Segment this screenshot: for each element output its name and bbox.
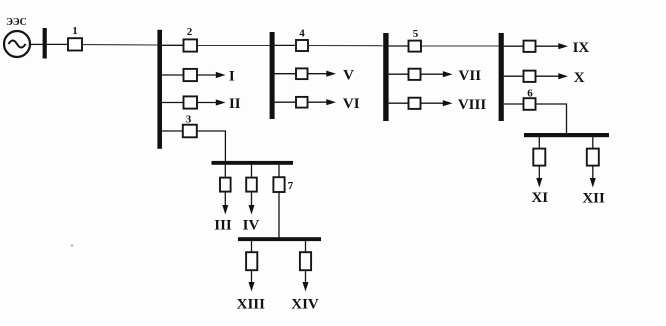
middle bus (bus 6) bbox=[212, 161, 294, 165]
wire bus5 to breaker X bbox=[504, 75, 524, 77]
wire right bus to breaker XI bbox=[538, 137, 540, 148]
wire bus4 to breaker VII bbox=[389, 73, 409, 75]
arrow feeder XIV bbox=[305, 270, 307, 283]
bus 1 (source bus) bbox=[43, 28, 47, 59]
breaker 2 bbox=[184, 39, 198, 51]
svg-text:2: 2 bbox=[187, 26, 193, 38]
wire bottom bus to breaker XIV bbox=[305, 241, 307, 252]
breaker feeder VI bbox=[296, 97, 308, 108]
breaker 7 bbox=[273, 177, 284, 192]
wire bus2 to breaker I bbox=[162, 74, 184, 76]
arrow feeder I bbox=[197, 74, 218, 76]
svg-text:5: 5 bbox=[413, 28, 419, 40]
bottom bus (bus 7) bbox=[238, 237, 321, 241]
arrow feeder II bbox=[197, 102, 218, 104]
breaker feeder VII bbox=[409, 69, 421, 80]
arrow feeder VII bbox=[421, 73, 445, 75]
wire bus2 to breaker II bbox=[162, 102, 184, 104]
breaker feeder XIII bbox=[246, 252, 257, 270]
breaker feeder VIII bbox=[409, 98, 421, 109]
breaker 5 bbox=[409, 41, 422, 52]
source G (system equivalent) bbox=[4, 31, 30, 57]
wire middle bus to breaker III bbox=[224, 165, 226, 178]
breaker feeder III bbox=[220, 178, 231, 192]
breaker 4 bbox=[296, 40, 308, 51]
arrow feeder XI bbox=[538, 166, 540, 180]
breaker feeder X bbox=[524, 71, 536, 82]
arrow feeder XIII bbox=[251, 270, 253, 283]
arrow feeder IX bbox=[536, 45, 560, 47]
breaker feeder V bbox=[296, 68, 308, 79]
wire breaker 7 to bottom bus bbox=[278, 192, 280, 238]
speck artifact bbox=[71, 245, 73, 247]
breaker feeder IV bbox=[246, 178, 257, 192]
svg-text:XIII: XIII bbox=[237, 297, 266, 313]
arrow feeder X bbox=[536, 75, 560, 77]
svg-text:II: II bbox=[229, 96, 241, 112]
bus 4 bbox=[383, 33, 388, 121]
wire bus4 to breaker VIII bbox=[389, 102, 409, 104]
breaker feeder I bbox=[184, 69, 198, 81]
bus 3 bbox=[270, 32, 275, 119]
wire bus3 to breaker VI bbox=[275, 101, 296, 103]
breaker feeder XIV bbox=[300, 252, 311, 270]
wire breaker 4 to bus 4 bbox=[308, 45, 383, 47]
bus 2 bbox=[157, 30, 162, 149]
wire bus5 to breaker 6 bbox=[504, 103, 524, 105]
wire breaker 5 to bus 5 bbox=[421, 45, 499, 47]
wire breaker 2 to bus 3 bbox=[197, 45, 270, 47]
svg-text:3: 3 bbox=[186, 114, 192, 126]
svg-text:VIII: VIII bbox=[458, 97, 487, 113]
wire middle bus to breaker 7 bbox=[278, 165, 280, 177]
right bus (bus 8) bbox=[524, 133, 609, 137]
wire breaker 1 to bus 2 bbox=[82, 44, 158, 46]
breaker 1 bbox=[68, 38, 82, 50]
svg-text:VII: VII bbox=[459, 68, 482, 84]
arrow feeder XII bbox=[592, 166, 594, 180]
arrow feeder III bbox=[224, 192, 226, 207]
arrow feeder VI bbox=[308, 101, 329, 103]
wire breaker 6 to right bus (right then down) bbox=[536, 104, 567, 134]
bus 5 bbox=[499, 33, 504, 121]
wire breaker 3 to middle bus (right then down) bbox=[197, 131, 226, 162]
wire bus3 to breaker 4 bbox=[275, 44, 296, 46]
svg-text:III: III bbox=[214, 218, 232, 234]
wire bus5 to breaker IX bbox=[504, 45, 524, 47]
breaker feeder II bbox=[184, 96, 198, 108]
wire bus2 to breaker 3 bbox=[162, 130, 183, 132]
wire bus3 to breaker V bbox=[275, 73, 296, 75]
svg-text:VI: VI bbox=[343, 96, 360, 112]
arrow feeder V bbox=[308, 73, 329, 75]
svg-text:XI: XI bbox=[531, 190, 548, 206]
wire bottom bus to breaker XIII bbox=[251, 241, 253, 252]
svg-text:V: V bbox=[343, 67, 354, 83]
breaker 3 bbox=[183, 125, 197, 138]
svg-text:IX: IX bbox=[573, 40, 590, 56]
svg-text:7: 7 bbox=[288, 180, 294, 192]
svg-text:I: I bbox=[229, 69, 235, 85]
svg-text:1: 1 bbox=[72, 25, 78, 37]
breaker 6 bbox=[524, 98, 536, 110]
wire bus2 to breaker 2 bbox=[162, 44, 184, 46]
svg-text:XII: XII bbox=[582, 191, 605, 207]
wire bus4 to breaker 5 bbox=[389, 45, 409, 47]
arrow feeder IV bbox=[251, 192, 253, 207]
wire right bus to breaker XII bbox=[592, 137, 594, 148]
svg-text:IV: IV bbox=[243, 218, 260, 234]
svg-text:X: X bbox=[574, 70, 585, 86]
wire middle bus to breaker IV bbox=[251, 165, 253, 178]
wire bus1 to breaker 1 bbox=[47, 43, 68, 45]
breaker feeder IX bbox=[524, 41, 536, 52]
arrow feeder VIII bbox=[421, 102, 445, 104]
svg-text:4: 4 bbox=[299, 28, 305, 40]
breaker feeder XII bbox=[587, 149, 599, 166]
wire source to bus1 bbox=[30, 43, 43, 45]
svg-text:XIV: XIV bbox=[291, 297, 319, 313]
svg-text:ЭЭС: ЭЭС bbox=[6, 17, 27, 28]
breaker feeder XI bbox=[533, 149, 545, 166]
